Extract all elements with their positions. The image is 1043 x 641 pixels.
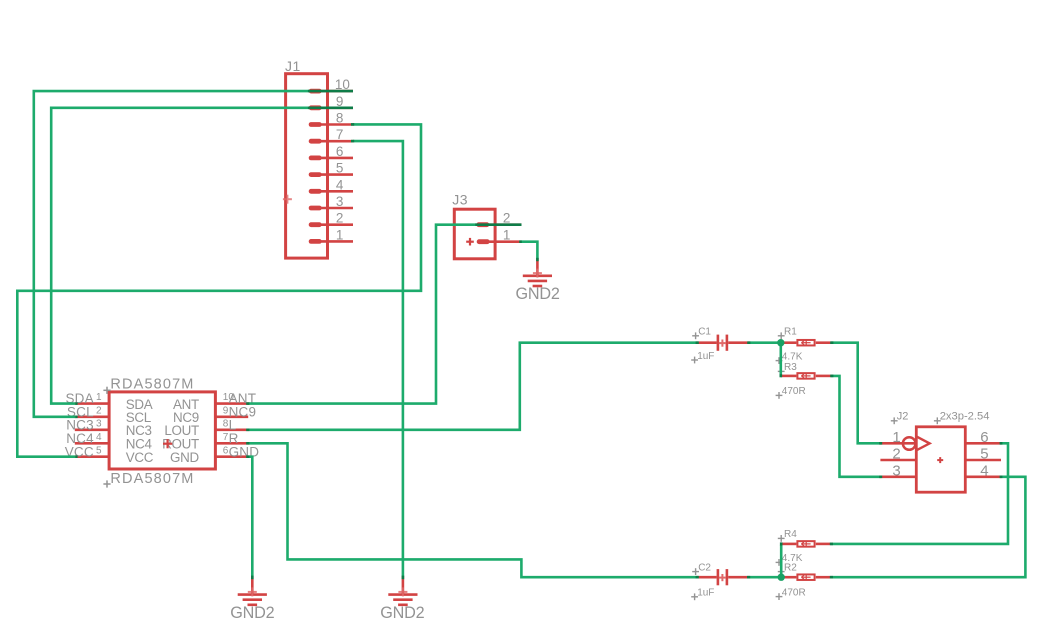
svg-text:3: 3 <box>96 418 102 429</box>
svg-text:C1: C1 <box>698 327 711 338</box>
svg-text:4.7K: 4.7K <box>782 351 803 362</box>
svg-text:VCC: VCC <box>126 450 154 465</box>
svg-text:R3: R3 <box>784 362 797 373</box>
svg-text:4: 4 <box>336 177 344 192</box>
svg-text:R4: R4 <box>784 529 797 540</box>
svg-text:1: 1 <box>336 227 344 242</box>
svg-text:R1: R1 <box>784 327 797 338</box>
svg-text:GND: GND <box>229 444 260 459</box>
svg-text:GND2: GND2 <box>516 285 560 303</box>
svg-text:1uF: 1uF <box>697 588 714 599</box>
svg-text:470R: 470R <box>782 386 806 397</box>
svg-text:J1: J1 <box>285 58 301 74</box>
svg-text:1uF: 1uF <box>697 351 714 362</box>
svg-text:3: 3 <box>336 194 344 209</box>
svg-text:6: 6 <box>336 144 344 159</box>
svg-text:GND2: GND2 <box>230 604 274 622</box>
svg-text:5: 5 <box>980 446 988 463</box>
svg-text:1: 1 <box>503 228 511 243</box>
svg-text:470R: 470R <box>782 587 806 598</box>
svg-text:C2: C2 <box>698 562 711 573</box>
svg-text:GND2: GND2 <box>380 604 424 622</box>
svg-text:4: 4 <box>96 432 102 443</box>
svg-text:2: 2 <box>503 211 511 226</box>
svg-text:4: 4 <box>980 462 988 479</box>
svg-text:2: 2 <box>892 446 900 463</box>
svg-text:GND: GND <box>170 450 199 465</box>
svg-text:2x3p-2.54: 2x3p-2.54 <box>940 411 990 423</box>
svg-text:1: 1 <box>96 392 102 403</box>
svg-text:J3: J3 <box>452 191 468 207</box>
svg-text:2: 2 <box>96 405 102 416</box>
svg-text:RDA5807M: RDA5807M <box>110 376 194 392</box>
svg-text:1: 1 <box>892 429 900 446</box>
svg-text:3: 3 <box>892 462 900 479</box>
svg-text:5: 5 <box>336 161 344 176</box>
svg-text:R2: R2 <box>784 562 797 573</box>
svg-text:2: 2 <box>336 211 344 226</box>
svg-text:6: 6 <box>980 429 988 446</box>
svg-text:J2: J2 <box>897 411 909 423</box>
svg-text:7: 7 <box>336 127 344 142</box>
svg-text:RDA5807M: RDA5807M <box>110 471 194 487</box>
svg-text:8: 8 <box>336 111 344 126</box>
svg-text:5: 5 <box>96 445 102 456</box>
